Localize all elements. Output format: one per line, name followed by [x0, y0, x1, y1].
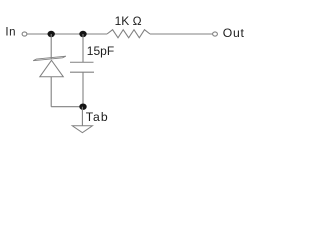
wire capacitor to node C: [82, 72, 84, 107]
junction node B: [79, 31, 86, 37]
capacitor C1 bottom plate: [70, 71, 94, 73]
terminal Out: [213, 32, 218, 36]
zener diode D1 anode triangle: [40, 60, 64, 77]
wire In to node B: [27, 33, 107, 35]
junction node A: [48, 31, 55, 37]
svg-text:15pF: 15pF: [87, 44, 114, 58]
wire bottom to node C: [51, 106, 83, 108]
svg-text:Out: Out: [223, 26, 245, 40]
svg-text:1K Ω: 1K Ω: [115, 14, 142, 28]
svg-text:In: In: [5, 27, 16, 39]
resistor R1 1K: [107, 30, 150, 38]
junction node C: [79, 104, 86, 110]
wire zener to bottom: [50, 77, 52, 107]
terminal In: [22, 32, 27, 36]
svg-text:Tab: Tab: [86, 110, 109, 124]
wire resistor to Out: [150, 33, 213, 35]
ground Tab symbol: [72, 126, 92, 133]
wire node C to ground: [81, 107, 83, 126]
capacitor C1 top plate: [70, 61, 94, 63]
zener diode D1 cathode bar: [33, 56, 66, 61]
wire node B to capacitor: [82, 34, 84, 62]
wire node A to zener: [50, 34, 52, 59]
